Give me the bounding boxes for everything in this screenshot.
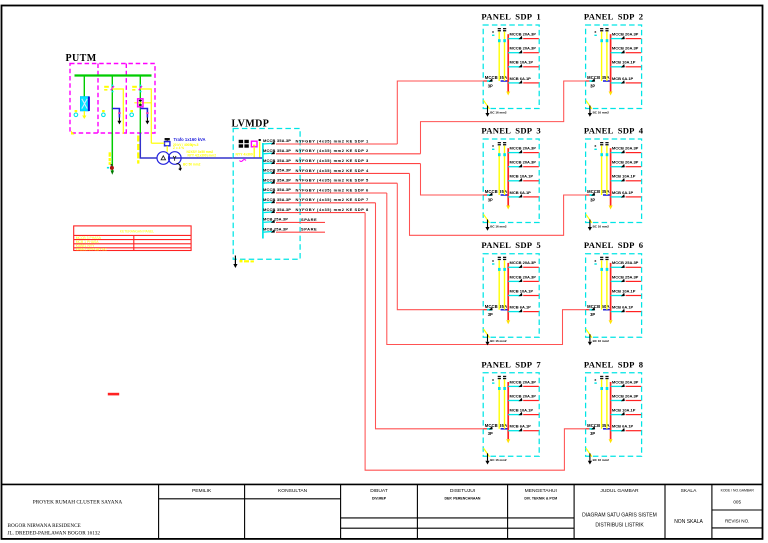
svg-text:BC 16 mm2: BC 16 mm2 [593, 339, 610, 343]
wire cell 3 feeder drop [139, 76, 141, 134]
indicator lamp cell 1 [74, 110, 78, 117]
svg-text:MCB 10A.1P: MCB 10A.1P [612, 288, 636, 293]
svg-text:MCCB 20A.3P: MCCB 20A.3P [510, 160, 537, 165]
svg-text:MCB 10A.1P: MCB 10A.1P [612, 174, 636, 179]
branch breaker MCB_6A.1P panel 4 [611, 190, 642, 198]
wire feeder 1 out of LVMDP [276, 138, 397, 144]
svg-text:MCCB 35A.3P: MCCB 35A.3P [263, 168, 291, 173]
wire feeder 3 out of LVMDP [276, 158, 421, 164]
svg-text:x: x [492, 378, 494, 382]
incoming main breaker squiggle [240, 160, 246, 162]
incoming supply stub below cell 2 [107, 133, 114, 175]
branch breaker MCB_6A.1P panel 6 [611, 305, 642, 313]
branch breaker MCCB_20A.3P panel 5 [508, 260, 539, 268]
incoming breaker MCCB 35A 3P panel 4 [586, 189, 611, 202]
PUTM 20kV busbar [75, 74, 152, 76]
svg-text:NYFGBY (4x35) mm2 KE SDP 2: NYFGBY (4x35) mm2 KE SDP 2 [296, 148, 370, 153]
LVMDP vertical busbar [262, 143, 264, 239]
LVMDP dashed enclosure [233, 129, 300, 260]
svg-text:MCCB 20A.3P: MCCB 20A.3P [612, 146, 639, 151]
drawing title [582, 513, 703, 529]
panel 1 vertical busbar [506, 34, 510, 95]
branch breaker MCCB_20A.3P panel 5 [508, 274, 539, 282]
kWh meter leads panel 2 [594, 28, 608, 81]
indicator lamp cell 3 [130, 110, 134, 117]
branch breaker MCCB_20A.3P panel 7 [508, 393, 539, 401]
wire feeder 8 out of LVMDP [276, 207, 369, 213]
svg-text:PANEL SDP 2: PANEL SDP 2 [584, 12, 644, 22]
svg-text:BOGOR NIRWANA RESIDENCE: BOGOR NIRWANA RESIDENCE [8, 523, 81, 529]
incoming breaker MCCB 50A 3P panel 6 [586, 304, 611, 317]
branch breaker MCCB_20A.3P panel 7 [508, 379, 539, 387]
PANEL SDP 7 dashed enclosure [483, 373, 539, 457]
svg-text:MCCB 20A.3P: MCCB 20A.3P [612, 160, 639, 165]
svg-text:NYY 4(1x300) mm2: NYY 4(1x300) mm2 [188, 154, 217, 158]
svg-text:3P: 3P [488, 312, 493, 317]
LVMDP feeder breaker MCCB5 (branch 5) [263, 177, 291, 183]
earth lead under fuse cell 1 [82, 111, 86, 119]
svg-text:MCB 10A.1P: MCB 10A.1P [510, 288, 534, 293]
column sub headers [372, 496, 557, 500]
svg-text:MCB 6A.1P: MCB 6A.1P [612, 190, 634, 195]
current transformer cell 3 [134, 99, 151, 107]
svg-text:JUDUL GAMBAR: JUDUL GAMBAR [600, 488, 639, 494]
svg-text:MCCB 20A.3P: MCCB 20A.3P [612, 379, 639, 384]
svg-text:MCCB 35A.3P: MCCB 35A.3P [263, 138, 291, 143]
PUTM cubicle dashed enclosure [70, 64, 155, 134]
PANEL SDP 8 dashed enclosure [586, 373, 642, 457]
svg-text:MCB 6A.1P: MCB 6A.1P [510, 424, 532, 429]
svg-text:MCB 10A.1P: MCB 10A.1P [612, 60, 636, 65]
LVMDP feeder breaker MCCB2 (branch 2) [263, 148, 291, 154]
indicator lamp cell 2 [102, 110, 106, 117]
incoming breaker MCCB 35A 3P panel 1 [483, 75, 508, 88]
earthing switch arm cell 2 [112, 109, 121, 125]
branch breaker MCB_10A.1P panel 6 [611, 288, 642, 296]
panel 5 earthing electrode [484, 329, 507, 345]
branch breaker MCCB_20A.3P panel 2 [611, 46, 642, 54]
incoming breaker MCCB 35A 3P panel 7 [483, 423, 508, 436]
legend schedule table [74, 226, 191, 251]
svg-text:x: x [594, 259, 596, 263]
svg-text:MCCB 20A.3P: MCCB 20A.3P [510, 274, 537, 279]
svg-text:SPARE: SPARE [301, 217, 317, 222]
transformer T1 [157, 152, 233, 171]
svg-text:BC 16 mm2: BC 16 mm2 [490, 339, 507, 343]
svg-text:MCB 25A.3P: MCB 25A.3P [263, 226, 288, 231]
svg-text:JL. DREDED-PAHLAWAN BOGOR 1613: JL. DREDED-PAHLAWAN BOGOR 16132 [8, 530, 101, 536]
svg-text:NYFGBY (4x35) mm2 KE SDP 3: NYFGBY (4x35) mm2 KE SDP 3 [296, 158, 370, 163]
wire feeder 5 out of LVMDP [276, 178, 397, 184]
svg-text:MCCB 20A.3P: MCCB 20A.3P [510, 393, 537, 398]
svg-text:DIV. TEKNIK & PCM: DIV. TEKNIK & PCM [524, 496, 557, 500]
svg-text:MCB 10A.1P: MCB 10A.1P [510, 408, 534, 413]
svg-text:PANEL SDP 8: PANEL SDP 8 [584, 359, 644, 369]
interlock wire cell 2 [112, 89, 123, 134]
svg-text:MCB 6A.1P: MCB 6A.1P [510, 76, 532, 81]
lightning arrester symbol [151, 138, 170, 152]
legend table texts [76, 230, 154, 252]
svg-text:005: 005 [733, 499, 741, 504]
svg-text:LVMDP: LVMDP [232, 119, 270, 130]
branch breaker MCCB_20A.3P panel 4 [611, 160, 642, 168]
svg-text:PANEL SDP 6: PANEL SDP 6 [584, 240, 644, 250]
svg-text:MCCB 35A.3P: MCCB 35A.3P [263, 158, 291, 163]
wire feeder 7 out of LVMDP [276, 197, 376, 203]
panel 2 earthing electrode [586, 100, 609, 116]
PANEL SDP 4 dashed enclosure [586, 139, 642, 223]
panel 1 earthing electrode [484, 100, 507, 116]
wire KE SDP 6 riser [387, 193, 586, 345]
svg-text:DISTRIBUSI LISTRIK: DISTRIBUSI LISTRIK [595, 522, 644, 528]
svg-text:x: x [492, 144, 494, 148]
wire KE SDP 4 riser [410, 173, 586, 235]
svg-text:3P: 3P [590, 197, 595, 202]
branch breaker MCB_6A.1P panel 2 [611, 76, 642, 84]
wire KE SDP 5 riser [397, 183, 483, 310]
svg-text:MCB 6A.1P: MCB 6A.1P [612, 76, 634, 81]
svg-text:MCB 6A.1P: MCB 6A.1P [510, 190, 532, 195]
branch breaker MCB_10A.1P panel 4 [611, 174, 642, 182]
svg-text:MCCB 35A.3P: MCCB 35A.3P [263, 207, 291, 212]
incoming breaker MCCB 35A 3P panel 8 [586, 423, 611, 436]
svg-text:3P: 3P [488, 431, 493, 436]
panel 6 earthing electrode [586, 329, 609, 345]
svg-text:MCCB 20A.3P: MCCB 20A.3P [510, 146, 537, 151]
wire feeder 6 out of LVMDP [276, 187, 387, 193]
svg-text:MENGETAHUI: MENGETAHUI [525, 488, 557, 494]
branch breaker MCCB_20A.3P panel 3 [508, 160, 539, 168]
meter potential tap [259, 139, 261, 158]
wire cell 2 feeder drop [111, 76, 113, 134]
medium voltage cable to transformer [140, 133, 157, 158]
svg-text:3P: 3P [488, 83, 493, 88]
kWh meter leads panel 5 [492, 257, 506, 310]
svg-text:MCB 6A.1P: MCB 6A.1P [612, 424, 634, 429]
svg-text:MCCB 20A.3P: MCCB 20A.3P [612, 393, 639, 398]
branch breaker MCCB_20A.3P panel 1 [508, 46, 539, 54]
svg-text:PUTM: PUTM [66, 53, 97, 64]
svg-text:NYFGBY (4x35) mm2 KE SDP 7: NYFGBY (4x35) mm2 KE SDP 7 [296, 197, 370, 202]
svg-text:DEP. PERENCANAAN: DEP. PERENCANAAN [445, 496, 481, 500]
svg-text:KONSULTAN: KONSULTAN [278, 488, 308, 494]
svg-text:x: x [594, 144, 596, 148]
svg-text:MCB 10A.1P: MCB 10A.1P [510, 60, 534, 65]
incoming breaker MCCB 35A 3P panel 3 [483, 189, 508, 202]
LVMDP feeder breaker MCCB3 (branch 3) [263, 158, 291, 164]
project address [8, 523, 101, 537]
svg-text:MCCB 20A.3P: MCCB 20A.3P [612, 32, 639, 37]
LVMDP feeder breaker MCCB8 (branch 8) [263, 207, 291, 213]
svg-text:x: x [492, 30, 494, 34]
svg-text:MCCB 35A.3P: MCCB 35A.3P [263, 177, 291, 182]
svg-text:MCCB 35A.3P: MCCB 35A.3P [263, 197, 291, 202]
svg-text:NYFGBY (4x35) mm2 KE SDP 6: NYFGBY (4x35) mm2 KE SDP 6 [296, 187, 370, 192]
PANEL SDP 3 dashed enclosure [483, 139, 539, 223]
svg-text:MCCB 20A.3P: MCCB 20A.3P [510, 260, 537, 265]
panel 7 earthing electrode [484, 448, 507, 464]
kWh meter leads panel 1 [492, 28, 506, 81]
PANEL SDP 2 dashed enclosure [586, 25, 642, 109]
low voltage incoming bus [233, 157, 263, 159]
branch breaker MCB_10A.1P panel 7 [508, 408, 539, 416]
svg-text:Dyn-5: Dyn-5 [190, 143, 199, 147]
wire KE SDP 8 riser [365, 213, 585, 471]
svg-text:MCCB 35A.3P: MCCB 35A.3P [263, 187, 291, 192]
panel 4 earthing electrode [586, 214, 609, 230]
PANEL SDP 6 dashed enclosure [586, 254, 642, 338]
branch breaker MCCB_20A.3P panel 4 [611, 146, 642, 154]
branch breaker MCB_6A.1P panel 7 [508, 424, 539, 432]
svg-text:NYFGBY (4x35) mm2 KE SDP 4: NYFGBY (4x35) mm2 KE SDP 4 [296, 168, 370, 173]
PANEL SDP 1 dashed enclosure [483, 25, 539, 109]
svg-text:MCCB 20A.3P: MCCB 20A.3P [510, 379, 537, 384]
svg-text:NYY 4x300: NYY 4x300 [236, 153, 253, 157]
svg-text:BC 50 mm2: BC 50 mm2 [183, 162, 201, 166]
wire KE SDP 7 riser [376, 203, 484, 429]
svg-text:Trafo 1x160 kVA: Trafo 1x160 kVA [174, 137, 206, 142]
branch breaker MCB_6A.1P panel 5 [508, 305, 539, 313]
kWh meter block [239, 140, 249, 148]
svg-text:3P: 3P [590, 431, 595, 436]
disconnect switch cell 2 [104, 85, 114, 93]
branch breaker MCCB_20A.3P panel 3 [508, 146, 539, 154]
branch breaker MCB_10A.1P panel 1 [508, 60, 539, 68]
svg-text:REVISI NO.: REVISI NO. [725, 519, 750, 524]
svg-text:MCB 10A.1P: MCB 10A.1P [510, 174, 534, 179]
kWh meter leads panel 6 [594, 257, 608, 310]
panel 3 earthing electrode [484, 214, 507, 230]
column headers [192, 488, 697, 494]
svg-text:BC 16 mm2: BC 16 mm2 [490, 458, 507, 462]
branch breaker MCCB_20A.3P panel 2 [611, 32, 642, 40]
interlock wire cell 3 [140, 89, 151, 143]
svg-text:PROYEK RUMAH CLUSTER SAYANA: PROYEK RUMAH CLUSTER SAYANA [33, 500, 123, 506]
svg-text:NYFGBY (4x35) mm2 KE SDP 8: NYFGBY (4x35) mm2 KE SDP 8 [296, 207, 370, 212]
svg-text:KODE / NO.GAMBAR: KODE / NO.GAMBAR [721, 488, 755, 492]
svg-text:x: x [594, 30, 596, 34]
kWh meter leads panel 7 [492, 376, 506, 429]
branch breaker MCCB_20A.3P panel 8 [611, 393, 642, 401]
LVMDP feeder breaker MCCB4 (branch 4) [263, 168, 291, 174]
panel 8 earthing electrode [586, 448, 609, 464]
svg-text:DIAGRAM SATU GARIS SISTEM: DIAGRAM SATU GARIS SISTEM [582, 513, 657, 519]
svg-text:PANEL SDP 5: PANEL SDP 5 [481, 240, 541, 250]
svg-text:SPARE: SPARE [301, 227, 317, 232]
LVMDP feeder breaker MCB9 (branch 9) [263, 217, 288, 223]
svg-text:MCCB 20A.3P: MCCB 20A.3P [510, 46, 537, 51]
panel 7 vertical busbar [506, 382, 510, 443]
wire feeder 9 out of LVMDP [276, 217, 325, 223]
panel 3 vertical busbar [506, 148, 510, 209]
incoming breaker MCCB 35A 3P panel 5 [483, 304, 508, 317]
svg-text:KETERANGAN PANEL: KETERANGAN PANEL [120, 230, 154, 234]
LVMDP feeder breaker MCCB6 (branch 6) [263, 187, 291, 193]
svg-text:PANEL SDP 7: PANEL SDP 7 [481, 359, 541, 369]
wire KE SDP 1 riser [397, 81, 483, 144]
panel 8 vertical busbar [609, 382, 613, 443]
svg-text:MCB 10A.1P: MCB 10A.1P [612, 408, 636, 413]
svg-text:BC 16 mm2: BC 16 mm2 [490, 224, 507, 228]
cable label marks cell3 drop [137, 136, 139, 164]
LVMDP feeder breaker MCCB7 (branch 7) [263, 197, 291, 203]
kWh meter leads panel 8 [594, 376, 608, 429]
svg-text:3P: 3P [590, 312, 595, 317]
svg-text:x: x [594, 378, 596, 382]
disconnect switch cell 3 [132, 85, 142, 93]
svg-text:MCCB 35A.3P: MCCB 35A.3P [263, 148, 291, 153]
svg-text:BC 16 mm2: BC 16 mm2 [593, 458, 610, 462]
svg-text:3P: 3P [488, 197, 493, 202]
wire KE SDP 3 riser [421, 164, 484, 195]
panel 6 vertical busbar [609, 263, 613, 324]
svg-text:DIV.MEP: DIV.MEP [372, 496, 387, 500]
svg-text:x: x [492, 259, 494, 263]
code number cell [721, 488, 755, 523]
svg-text:PEMILIK: PEMILIK [192, 488, 212, 494]
branch breaker MCB_6A.1P panel 3 [508, 190, 539, 198]
branch breaker MCCB_20A.3P panel 1 [508, 32, 539, 40]
panel 5 vertical busbar [506, 263, 510, 324]
svg-text:PANEL SDP 4: PANEL SDP 4 [584, 126, 644, 136]
wire feeder 4 out of LVMDP [276, 168, 410, 174]
PUTM box corner earth tick [71, 131, 75, 135]
svg-text:BC 16 mm2: BC 16 mm2 [593, 224, 610, 228]
LVMDP feeder breaker MCB10 (branch 10) [263, 226, 288, 232]
title block frame [2, 484, 763, 539]
svg-text:MCCB 20A.3P: MCCB 20A.3P [510, 32, 537, 37]
svg-text:MCCB 25A.3P: MCCB 25A.3P [612, 274, 639, 279]
earthing switch arm cell 3 [140, 109, 149, 125]
branch breaker MCB_10A.1P panel 5 [508, 288, 539, 296]
wire KE SDP 2 riser [421, 81, 586, 154]
transformer spec notes [173, 143, 216, 167]
svg-text:BC 16 mm2: BC 16 mm2 [490, 110, 507, 114]
panel 4 vertical busbar [609, 148, 613, 209]
potential transformer / fuse cell 1 [80, 97, 89, 112]
incoming breaker MCCB 35A 3P panel 2 [586, 75, 611, 88]
svg-text:NYFGBY (4x35) mm2 KE SDP 1: NYFGBY (4x35) mm2 KE SDP 1 [296, 138, 370, 143]
svg-text:DIBUAT: DIBUAT [370, 488, 388, 494]
svg-text:NYFGBY (4x35) mm2 KE SDP 5: NYFGBY (4x35) mm2 KE SDP 5 [296, 178, 370, 183]
svg-text:PANEL SDP 3: PANEL SDP 3 [481, 126, 541, 136]
kWh meter leads panel 3 [492, 142, 506, 195]
svg-text:MCCB 20A.3P: MCCB 20A.3P [612, 46, 639, 51]
branch breaker MCB_6A.1P panel 1 [508, 76, 539, 84]
svg-text:KABEL NYFGBY BC: KABEL NYFGBY BC [76, 247, 108, 251]
branch breaker MCB_10A.1P panel 3 [508, 174, 539, 182]
svg-text:PANEL SDP 1: PANEL SDP 1 [481, 12, 541, 22]
svg-text:NON SKALA: NON SKALA [674, 519, 703, 525]
branch breaker MCB_10A.1P panel 8 [611, 408, 642, 416]
svg-text:DISETUJUI: DISETUJUI [450, 488, 475, 494]
svg-text:MCCB 25A.3P: MCCB 25A.3P [612, 260, 639, 265]
svg-text:Z = 4 %: Z = 4 % [173, 146, 184, 150]
meter current transformer [251, 141, 257, 158]
note mark [108, 393, 119, 396]
branch breaker MCCB_20A.3P panel 8 [611, 379, 642, 387]
branch breaker MCCB_25A.3P panel 6 [611, 274, 642, 282]
svg-text:SKALA: SKALA [681, 488, 698, 494]
wire feeder 2 out of LVMDP [276, 148, 421, 154]
branch breaker MCB_6A.1P panel 8 [611, 424, 642, 432]
LVMDP earthing electrode [233, 256, 254, 269]
branch breaker MCB_10A.1P panel 2 [611, 60, 642, 68]
LVMDP feeder breaker MCCB1 (branch 1) [263, 138, 291, 144]
wire incoming cell 1 drop [83, 76, 85, 98]
svg-text:MCB 25A.3P: MCB 25A.3P [263, 217, 288, 222]
PANEL SDP 5 dashed enclosure [483, 254, 539, 338]
svg-text:MCB 6A.1P: MCB 6A.1P [612, 305, 634, 310]
svg-text:MCB 6A.1P: MCB 6A.1P [510, 305, 532, 310]
panel 2 vertical busbar [609, 34, 613, 95]
svg-text:3P: 3P [590, 83, 595, 88]
svg-text:BC 16 mm2: BC 16 mm2 [593, 110, 610, 114]
kWh meter leads panel 4 [594, 142, 608, 195]
branch breaker MCCB_25A.3P panel 6 [611, 260, 642, 268]
wire feeder 10 out of LVMDP [276, 227, 325, 233]
